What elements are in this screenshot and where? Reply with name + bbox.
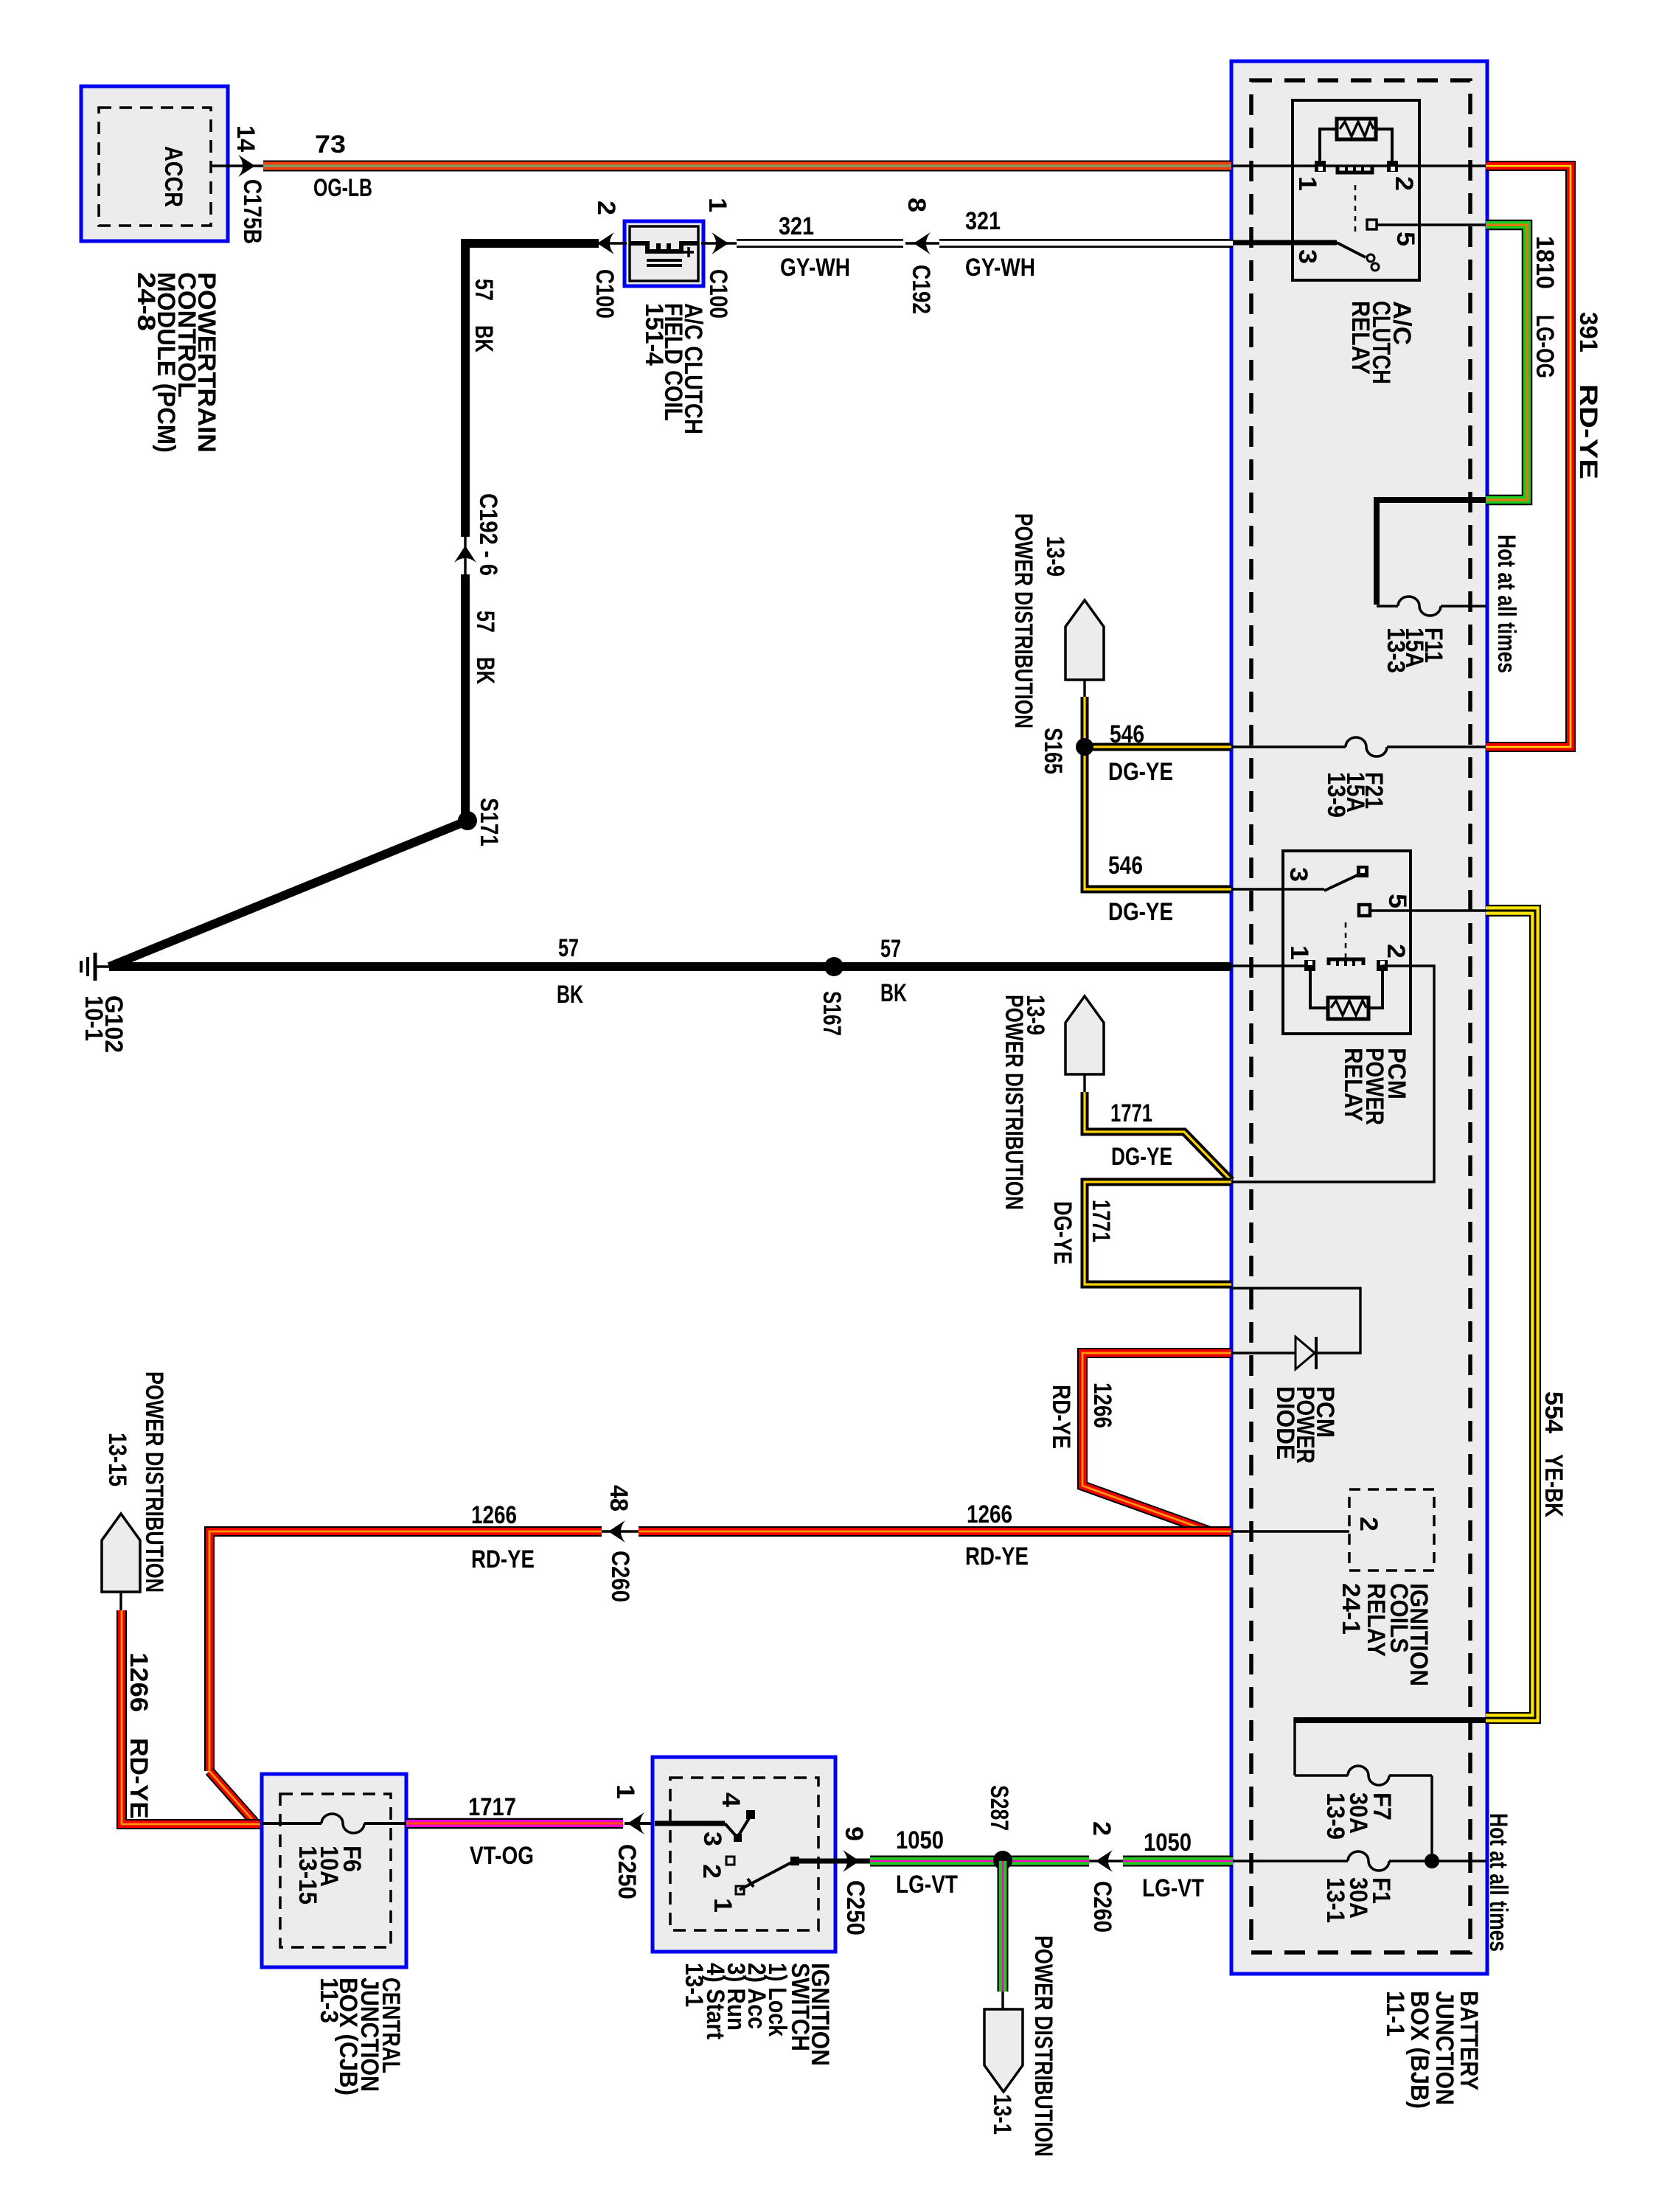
wire F11 feed (thick) [1377, 500, 1486, 605]
wire ignition switch input [655, 1821, 725, 1826]
svg-text:1771: 1771 [1110, 1099, 1152, 1127]
svg-text:C260: C260 [606, 1551, 634, 1602]
svg-text:11-3: 11-3 [315, 1978, 343, 2023]
svg-text:S165: S165 [1039, 728, 1067, 774]
svg-text:Hot at all times: Hot at all times [1492, 535, 1520, 673]
connector C175B arrow [238, 155, 255, 177]
wire 546 DG-YE from S165 to F21 [1085, 697, 1231, 889]
svg-text:JUNCTION: JUNCTION [1430, 1991, 1458, 2105]
svg-text:LG-OG: LG-OG [1531, 315, 1559, 378]
connector C100 arrow pin 1 [701, 242, 739, 244]
svg-text:LG-VT: LG-VT [1142, 1874, 1204, 1902]
svg-text:LG-VT: LG-VT [896, 1871, 958, 1899]
svg-text:391: 391 [1574, 312, 1602, 352]
svg-text:C260: C260 [1088, 1881, 1116, 1933]
svg-text:8: 8 [902, 198, 931, 212]
svg-text:14: 14 [232, 125, 260, 152]
ignition switch contact 2 [726, 1857, 734, 1865]
A/C relay actuation dashed line [1354, 185, 1357, 234]
ignition switch dashed border [670, 1778, 818, 1930]
ACCR dashed border [99, 108, 211, 226]
wire F21 row [1231, 745, 1486, 748]
svg-text:2: 2 [592, 201, 620, 215]
svg-text:13-9: 13-9 [1321, 1792, 1349, 1840]
fuse F6 [321, 1812, 364, 1836]
wire 321 GY-WH (C192 to relay) [939, 239, 1233, 248]
svg-text:C100: C100 [591, 269, 619, 319]
wire PCM relay coil row [1231, 964, 1310, 967]
splice S165 [1076, 738, 1093, 756]
PCM relay pin 5 contact [1359, 905, 1370, 916]
A/C clutch field coil symbol [630, 243, 698, 251]
wire 1266 RD-YE diagonal into CJB [209, 1771, 254, 1822]
PCM power relay box [1283, 851, 1411, 1034]
svg-text:VT-OG: VT-OG [470, 1842, 534, 1870]
PCM relay pin 1 node [1304, 960, 1315, 971]
wire 1050 LG-VT (C250 to S287) [870, 1856, 1089, 1867]
svg-text:57: 57 [470, 279, 498, 301]
wire 57 BK from field coil [465, 243, 599, 537]
svg-text:1: 1 [1293, 176, 1321, 191]
svg-text:BK: BK [470, 325, 498, 352]
PCM relay actuation dashed line [1345, 922, 1347, 963]
svg-text:4: 4 [717, 1792, 745, 1807]
PCM relay coil [1329, 959, 1363, 965]
svg-text:10-1: 10-1 [80, 995, 108, 1041]
svg-text:321: 321 [779, 212, 814, 240]
wire 1050 LG-VT (S287 to C260) [1084, 1856, 1095, 1867]
svg-text:57: 57 [880, 935, 901, 963]
wire F1 row [1231, 1860, 1486, 1862]
fuse F7 [1348, 1764, 1389, 1788]
svg-text:13-3: 13-3 [1382, 627, 1410, 673]
svg-text:24-1: 24-1 [1337, 1583, 1365, 1635]
svg-text:3: 3 [1284, 867, 1312, 882]
svg-text:9: 9 [840, 1826, 868, 1841]
svg-text:13-15: 13-15 [293, 1846, 321, 1905]
wire ignition coils relay pin 2 [1231, 1530, 1349, 1532]
svg-text:321: 321 [965, 207, 1001, 235]
PCM relay switch arm [1324, 874, 1359, 891]
PCM connector box (ACCR) [81, 86, 228, 241]
svg-text:YE-BK: YE-BK [1540, 1454, 1568, 1517]
svg-text:13-1: 13-1 [988, 2094, 1016, 2135]
wire 1771 DG-YE loop to diode [1085, 1182, 1231, 1284]
connector C192-6 arrow [464, 535, 466, 577]
connector C250 arrow pin 1 [625, 1822, 655, 1825]
A/C relay coil [1338, 167, 1372, 173]
svg-text:C100: C100 [704, 269, 732, 319]
svg-text:Hot at all times: Hot at all times [1484, 1813, 1512, 1952]
svg-text:C192: C192 [907, 265, 935, 314]
svg-text:C250: C250 [613, 1844, 641, 1899]
wire 1810 LG-OG [1486, 225, 1527, 500]
svg-text:1: 1 [709, 1898, 737, 1913]
PCM relay resistor [1310, 970, 1328, 1008]
svg-text:RD-YE: RD-YE [1574, 384, 1602, 479]
svg-text:13-1: 13-1 [1321, 1877, 1349, 1923]
wire A/C relay pin 5 [1377, 223, 1486, 226]
svg-text:1050: 1050 [1144, 1829, 1192, 1857]
svg-text:DG-YE: DG-YE [1108, 898, 1173, 926]
ground G102 [96, 965, 112, 968]
svg-text:RELAY: RELAY [1339, 1048, 1367, 1121]
svg-text:BK: BK [557, 981, 583, 1009]
power distribution arrow 13-9 (lower) [1065, 996, 1104, 1074]
svg-text:13-9: 13-9 [1322, 772, 1350, 818]
PCM power diode [1295, 1337, 1315, 1369]
wire 73 OG-LB [263, 161, 1231, 172]
wire ACCR pin 14 lead [212, 164, 265, 167]
splice S171 [458, 811, 477, 830]
wire 1717 VT-OG [406, 1818, 623, 1829]
A/C clutch relay box [1293, 100, 1419, 280]
wire ignition switch output [794, 1859, 872, 1864]
svg-text:RD-YE: RD-YE [1047, 1385, 1075, 1449]
wire 1266 RD-YE main [209, 1531, 1231, 1771]
A/C relay switch arm [1337, 243, 1366, 257]
wire PCM relay pin 2 to 1771 [1231, 966, 1434, 1182]
svg-text:1: 1 [1285, 945, 1313, 960]
ignition coils relay dashed box [1349, 1489, 1434, 1571]
power distribution arrow 13-1 (down) [984, 2009, 1023, 2092]
svg-text:3: 3 [1293, 249, 1321, 264]
svg-text:24-8: 24-8 [132, 272, 160, 331]
svg-text:13-1: 13-1 [680, 1963, 708, 2007]
svg-text:DG-YE: DG-YE [1048, 1201, 1077, 1265]
svg-text:151-4: 151-4 [640, 303, 668, 366]
svg-text:OG-LB: OG-LB [313, 174, 372, 202]
svg-text:2: 2 [1390, 176, 1418, 191]
wire 1266 RD-YE from 13-15 arrow [122, 1610, 262, 1824]
wire 57 BK ground bus [109, 962, 1231, 971]
svg-text:5: 5 [1391, 232, 1419, 246]
svg-text:2: 2 [1382, 944, 1410, 959]
svg-text:1266: 1266 [471, 1501, 517, 1529]
svg-text:GY-WH: GY-WH [965, 254, 1035, 282]
wire LG-VT S287 branch down [998, 1861, 1009, 1992]
svg-text:RELAY: RELAY [1346, 301, 1374, 375]
wire 391 RD-YE [1486, 166, 1571, 747]
svg-text:S167: S167 [818, 991, 846, 1036]
fuse F1 [1348, 1849, 1389, 1874]
fuse F21 [1346, 735, 1387, 759]
svg-text:1266: 1266 [125, 1652, 153, 1712]
power distribution arrow 13-15 [102, 1514, 140, 1592]
svg-text:ACCR: ACCR [159, 146, 187, 207]
svg-text:DG-YE: DG-YE [1111, 1143, 1172, 1171]
wire A/C relay coil feed [1231, 164, 1486, 167]
svg-text:BK: BK [880, 979, 907, 1007]
svg-text:2: 2 [1088, 1821, 1116, 1836]
svg-text:RD-YE: RD-YE [125, 1738, 153, 1819]
svg-text:BK: BK [471, 657, 499, 684]
svg-text:1810: 1810 [1531, 236, 1559, 289]
wire 1266 RD-YE branch to diode [1082, 1353, 1231, 1531]
A/C relay resistor [1320, 129, 1337, 163]
wire 1050 LG-VT (C260 to BJB) [1123, 1856, 1233, 1867]
wire F6 row [262, 1822, 406, 1825]
wire 554 YE-BK [1486, 911, 1535, 1718]
svg-text:1266: 1266 [1088, 1382, 1116, 1428]
wire 321 GY-WH (C100 to C192) [737, 239, 903, 248]
wire A/C relay pin 3 (switch feed) [1231, 240, 1337, 246]
wire 554 feed (thick) [1295, 1717, 1486, 1723]
svg-text:546: 546 [1108, 852, 1143, 880]
A/C relay pin 2 node [1387, 161, 1398, 172]
svg-text:RD-YE: RD-YE [471, 1545, 535, 1573]
A/C relay pin 5 contact [1367, 220, 1377, 229]
splice S287 [993, 1851, 1012, 1870]
connector C250 arrow pin 9 [843, 1850, 860, 1872]
svg-text:3: 3 [698, 1832, 726, 1846]
svg-text:546: 546 [1110, 720, 1144, 748]
connector C260 arrow pin 2 [1089, 1860, 1123, 1862]
junction F7/F1 [1425, 1854, 1439, 1868]
svg-text:POWER DISTRIBUTION: POWER DISTRIBUTION [1029, 1935, 1057, 2157]
CJB dashed border [280, 1794, 391, 1947]
wire F7 to F1 junction [1430, 1775, 1433, 1861]
wire diode cathode to 1771 [1231, 1288, 1360, 1353]
connector C100 arrow pin 2 [594, 242, 627, 244]
splice S167 [824, 957, 844, 976]
svg-text:C250: C250 [841, 1880, 869, 1935]
svg-text:1266: 1266 [967, 1500, 1012, 1528]
wire diode anode to 1266 [1231, 1352, 1295, 1354]
wire PCM relay pin 3 [1231, 888, 1324, 890]
svg-text:13-9: 13-9 [1041, 536, 1069, 577]
BJB dashed border [1251, 80, 1470, 1952]
svg-text:S287: S287 [985, 1785, 1013, 1831]
battery junction box (BJB) outline [1231, 61, 1487, 1974]
svg-text:13-15: 13-15 [103, 1433, 131, 1486]
ignition switch wiper (output to pin 1) [740, 1861, 794, 1890]
wire 1771 DG-YE feed from arrow [1085, 1092, 1231, 1180]
svg-text:C192 - 6: C192 - 6 [474, 493, 502, 576]
svg-text:57: 57 [558, 934, 579, 962]
svg-text:RELAY: RELAY [1362, 1583, 1390, 1657]
ignition switch box [653, 1757, 835, 1952]
PCM relay pin 2 node [1377, 960, 1388, 971]
svg-text:1717: 1717 [468, 1793, 516, 1821]
connector C260 arrow pin 48 gap [602, 1517, 639, 1546]
svg-text:DIODE: DIODE [1271, 1386, 1299, 1460]
svg-text:1771: 1771 [1087, 1200, 1115, 1242]
wire PCM relay pin 5 [1369, 909, 1486, 911]
svg-text:57: 57 [471, 611, 499, 633]
connector C192 arrow pin 8 [905, 242, 944, 244]
svg-text:1050: 1050 [896, 1826, 944, 1854]
svg-text:1: 1 [703, 198, 731, 212]
svg-text:554: 554 [1540, 1391, 1568, 1433]
fuse F11 [1398, 594, 1441, 619]
A/C relay pin 1 node [1315, 161, 1326, 172]
svg-text:RD-YE: RD-YE [965, 1543, 1029, 1571]
svg-text:2: 2 [1354, 1517, 1382, 1531]
ignition switch wiper (input to pin 4) [725, 1815, 751, 1837]
svg-text:DG-YE: DG-YE [1108, 758, 1173, 786]
svg-text:11-1: 11-1 [1381, 1991, 1409, 2037]
svg-text:5: 5 [1383, 894, 1411, 908]
wire 57 BK diagonal to ground [109, 821, 467, 967]
A/C clutch field coil box [625, 221, 703, 286]
svg-text:POWER DISTRIBUTION: POWER DISTRIBUTION [1000, 995, 1028, 1210]
svg-text:POWER DISTRIBUTION: POWER DISTRIBUTION [1009, 513, 1037, 728]
svg-text:GY-WH: GY-WH [780, 254, 850, 282]
svg-text:C175B: C175B [238, 179, 266, 244]
svg-text:48: 48 [605, 1485, 633, 1512]
svg-text:S171: S171 [475, 798, 503, 846]
wire 57 BK to S171 [461, 574, 470, 821]
wire F7 row [1295, 1774, 1432, 1776]
power distribution arrow 13-9 (upper) [1065, 600, 1104, 680]
svg-text:1: 1 [611, 1784, 639, 1799]
central junction box (CJB) [262, 1774, 406, 1967]
wire F11 row [1377, 605, 1486, 607]
svg-text:2: 2 [698, 1864, 726, 1879]
svg-text:POWER DISTRIBUTION: POWER DISTRIBUTION [140, 1371, 168, 1593]
svg-text:73: 73 [315, 131, 346, 159]
